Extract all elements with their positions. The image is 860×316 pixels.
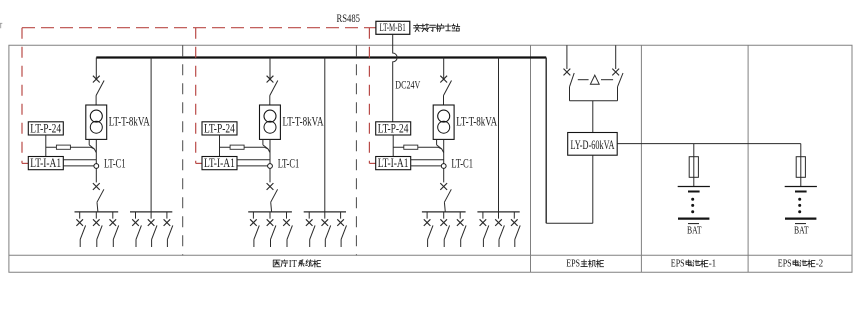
- breaker EPS input 2: [612, 69, 619, 76]
- svg-text:-2: -2: [816, 259, 824, 270]
- output breaker module 3 branch 3: [459, 212, 461, 219]
- node LT-C1 module 2: [268, 164, 273, 169]
- wire LT-P-24 to LT-I-A1 module 1: [45, 135, 47, 157]
- wire EPS switch outputs: [569, 87, 571, 101]
- breaker QF12 main output: [93, 183, 100, 190]
- module separator dashed 1: [182, 45, 184, 255]
- distribution bar B module 2: [304, 211, 346, 213]
- svg-text:LT-M-B1: LT-M-B1: [380, 22, 406, 34]
- wire EPS input 1: [566, 45, 568, 69]
- svg-text:LT-C1: LT-C1: [104, 157, 126, 171]
- power supply LT-P-24 module 1: [28, 122, 63, 135]
- transformer LT-T-8kVA T3 box: [433, 105, 454, 139]
- output breaker module 3 branch 5: [498, 212, 500, 219]
- battery BAT2 symbol: [785, 186, 817, 188]
- fuse battery F-B2: [796, 157, 805, 178]
- label 安装于护士站: [414, 24, 460, 32]
- fuse F21: [230, 145, 244, 149]
- EPS inverter link with triangle: [578, 79, 589, 81]
- output breaker module 3 branch 2: [443, 212, 445, 219]
- svg-text:EPS: EPS: [566, 259, 580, 270]
- section divider battery cabinet 1: [640, 45, 642, 272]
- insulation monitor LT-I-A1 module 2: [202, 157, 237, 170]
- breaker QF21 input: [267, 76, 274, 83]
- svg-text:LT-T-8kVA: LT-T-8kVA: [109, 114, 150, 129]
- wire EPS output loop: [592, 155, 594, 223]
- output breaker module 3 branch 6: [513, 212, 515, 219]
- wire EPS input 2: [615, 45, 617, 69]
- distribution bar B module 1: [130, 211, 172, 213]
- breaker QF31 input: [440, 76, 447, 83]
- wire node to breaker module 1: [95, 168, 97, 182]
- label row separator line: [9, 254, 852, 256]
- power supply LT-P-24 module 2: [202, 122, 237, 135]
- output breaker module 2 branch 5: [324, 212, 326, 219]
- output breaker module 1 branch 2: [95, 212, 97, 219]
- battery BAT1 symbol: [678, 186, 710, 188]
- wire DC24V from LT-M-B1 with hop over bus: [393, 34, 397, 122]
- output breaker module 3 branch 4: [482, 212, 484, 219]
- svg-text:-1: -1: [709, 259, 717, 270]
- EPS unit LY-D-60kVA: [568, 133, 618, 156]
- wire feeder 2 module 3: [498, 58, 500, 212]
- wire LT-I-A1 sense upper module 2: [237, 159, 270, 161]
- svg-text:LY-D-60kVA: LY-D-60kVA: [571, 138, 615, 152]
- svg-text:LT-P-24: LT-P-24: [204, 121, 235, 135]
- output breaker module 1 branch 3: [112, 212, 114, 219]
- transformer T1 windings: [90, 110, 102, 122]
- svg-text:LT-P-24: LT-P-24: [378, 121, 409, 135]
- wire LT-I-A1 sense upper module 3: [411, 159, 444, 161]
- wire fuse branch module 1: [46, 146, 91, 148]
- output breaker module 2 branch 2: [269, 212, 271, 219]
- fuse battery F-B1: [689, 157, 698, 178]
- svg-text:EPS: EPS: [671, 259, 685, 270]
- svg-text:LT-I-A1: LT-I-A1: [378, 156, 409, 170]
- wire fuse branch module 3: [393, 146, 438, 148]
- transformer LT-T-8kVA T2 box: [260, 105, 281, 139]
- wire feeder module 1: [95, 58, 97, 81]
- wire transformer secondary module 1: [95, 139, 97, 163]
- node LT-C1 module 3: [441, 164, 446, 169]
- distribution bar B module 3: [477, 211, 519, 213]
- wire feeder 2 module 2: [324, 58, 326, 212]
- RS485 bus red dashed horizontal: [22, 27, 376, 29]
- label 医疗IT系统柜: [273, 260, 288, 267]
- RS485 red dashed drop module 1: [21, 28, 23, 164]
- distribution bar A module 3: [422, 211, 466, 213]
- svg-text:LT-T-8kVA: LT-T-8kVA: [283, 114, 324, 129]
- svg-text:DC24V: DC24V: [395, 77, 420, 91]
- edge mark cropped glyph at left border: [0, 23, 2, 28]
- distribution bar A module 1: [75, 211, 119, 213]
- breaker QF11 input: [93, 76, 100, 83]
- wire transformer secondary module 3: [443, 139, 445, 163]
- section divider battery cabinet 2: [747, 45, 749, 272]
- wire LT-I-A1 sense lower module 2: [237, 165, 268, 167]
- svg-text:RS485: RS485: [337, 11, 361, 25]
- transformer T2 windings: [264, 110, 276, 122]
- wire node to breaker module 2: [269, 168, 271, 182]
- svg-text:LT-P-24: LT-P-24: [30, 121, 61, 135]
- insulation monitor LT-I-A1 module 1: [28, 157, 63, 170]
- transformer LT-T-8kVA T1 box: [86, 105, 107, 139]
- RS485 red dashed drop module 2: [195, 28, 197, 164]
- output breaker module 1 branch 6: [166, 212, 168, 219]
- output breaker module 2 branch 3: [286, 212, 288, 219]
- svg-text:IT: IT: [289, 259, 297, 270]
- bus secured output (thick): [96, 56, 546, 58]
- output breaker module 1 branch 1: [79, 212, 81, 219]
- wire node to breaker module 3: [443, 168, 445, 182]
- breaker QF32 main output: [440, 183, 447, 190]
- module separator dashed 2: [355, 45, 357, 255]
- svg-text:LT-T-8kVA: LT-T-8kVA: [456, 114, 497, 129]
- cabinet frame outline: [9, 45, 852, 272]
- wire feeder 2 module 1: [150, 58, 152, 212]
- wire LT-P-24 to LT-I-A1 module 3: [392, 135, 394, 157]
- output breaker module 2 branch 4: [308, 212, 310, 219]
- wire feeder module 3: [443, 58, 445, 81]
- output breaker module 1 branch 4: [135, 212, 137, 219]
- distribution bar A module 2: [248, 211, 292, 213]
- svg-text:BAT: BAT: [687, 226, 702, 237]
- output breaker module 1 branch 5: [150, 212, 152, 219]
- insulation monitor LT-I-A1 module 3: [376, 157, 411, 170]
- svg-text:BAT: BAT: [794, 226, 809, 237]
- output breaker module 2 branch 6: [340, 212, 342, 219]
- wire LT-I-A1 sense lower module 1: [63, 165, 94, 167]
- wire feeder module 2: [269, 58, 271, 81]
- wire LT-I-A1 sense lower module 3: [411, 165, 442, 167]
- wire LT-P-24 to LT-I-A1 module 2: [219, 135, 221, 157]
- wire LT-I-A1 sense upper module 1: [63, 159, 96, 161]
- fuse F31: [404, 145, 418, 149]
- node LT-C1 module 1: [94, 164, 99, 169]
- monitor LT-M-B1 box: [376, 21, 410, 34]
- svg-text:LT-I-A1: LT-I-A1: [204, 156, 235, 170]
- breaker QF22 main output: [267, 183, 274, 190]
- wire fuse branch module 2: [220, 146, 265, 148]
- power supply LT-P-24 module 3: [376, 122, 411, 135]
- breaker EPS input 1: [564, 69, 571, 76]
- RS485 red dashed drop module 3: [368, 28, 370, 164]
- wire battery bus: [617, 143, 801, 145]
- svg-text:LT-C1: LT-C1: [451, 157, 473, 171]
- svg-text:LT-I-A1: LT-I-A1: [30, 156, 61, 170]
- fuse F11: [56, 145, 70, 149]
- transformer T3 windings: [438, 110, 450, 122]
- svg-text:EPS: EPS: [778, 259, 792, 270]
- output breaker module 2 branch 1: [252, 212, 254, 219]
- wire transformer secondary module 2: [269, 139, 271, 163]
- output breaker module 3 branch 1: [426, 212, 428, 219]
- svg-text:LT-C1: LT-C1: [278, 157, 300, 171]
- section divider EPS main cabinet: [530, 45, 532, 272]
